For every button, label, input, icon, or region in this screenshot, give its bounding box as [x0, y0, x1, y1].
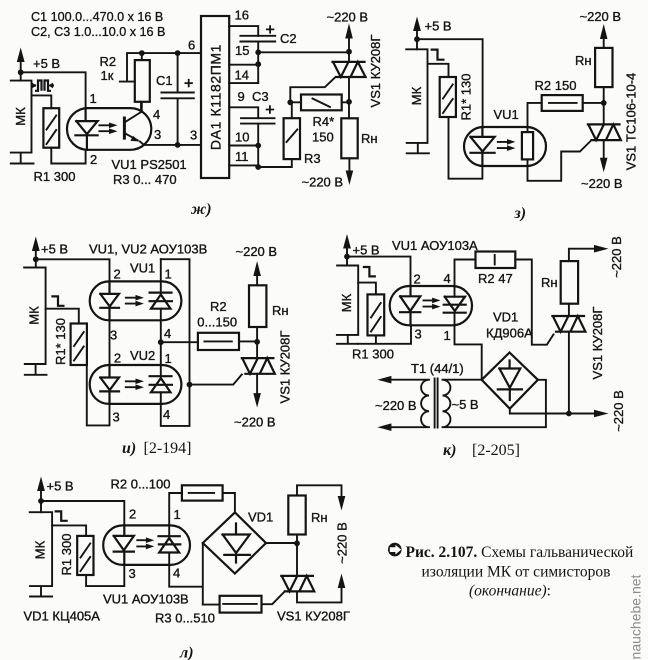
wire triac main line zh — [348, 52, 350, 119]
wire MK to R1 l — [52, 525, 86, 536]
label VS1 KU208G i — [278, 331, 293, 404]
svg-text:VS1 КУ208Г: VS1 КУ208Г — [368, 35, 383, 108]
+5V supply arrow i — [32, 237, 68, 268]
MCU block MK zh — [11, 81, 34, 164]
bridge diode symbol l — [223, 524, 250, 563]
svg-text:~220 В: ~220 В — [581, 176, 623, 191]
caption line 3 — [469, 583, 551, 600]
resistor R1 k — [368, 294, 385, 335]
pin 14 wire loop zh — [229, 65, 258, 83]
svg-text:2: 2 — [114, 351, 121, 366]
optocoupler VU2 body i — [90, 365, 182, 404]
LED of VU1 k — [400, 286, 420, 325]
~220V bottom arrow zh — [302, 158, 354, 189]
svg-text:з): з) — [514, 205, 527, 222]
~220V up arrow l — [338, 574, 346, 589]
pin 10 wire zh — [229, 130, 261, 149]
svg-text:С3: С3 — [252, 89, 269, 104]
svg-text:+5 В: +5 В — [353, 243, 380, 258]
photothyristor VU1 i — [150, 293, 172, 309]
wire Rn leads l — [297, 485, 342, 543]
label R3 zh — [304, 151, 321, 166]
wire R1 to LED cathode z — [449, 117, 483, 179]
pin 4 label k — [444, 271, 451, 286]
svg-text:2: 2 — [414, 272, 421, 287]
wire pin3 rail zh — [144, 144, 201, 146]
MCU block MK k — [337, 266, 358, 344]
label l) — [179, 645, 194, 660]
svg-text:1: 1 — [165, 267, 172, 282]
pin 4 label zh — [153, 107, 160, 122]
svg-text:9: 9 — [238, 89, 245, 104]
svg-text:3: 3 — [154, 127, 161, 142]
svg-text:Rн: Rн — [311, 510, 328, 525]
svg-text:~220 В: ~220 В — [611, 390, 626, 432]
node bridge triac junction l — [294, 540, 300, 546]
label C3 zh — [252, 89, 269, 104]
svg-text:+5 В: +5 В — [41, 242, 68, 257]
label R1 300 zh — [34, 169, 76, 184]
pin 6 label zh — [188, 38, 195, 53]
svg-text:16: 16 — [235, 8, 249, 23]
wire node to triac i — [256, 342, 258, 358]
optocoupler VU1 body i — [90, 281, 182, 320]
svg-text:и): и) — [122, 440, 136, 457]
svg-text:4: 4 — [163, 407, 170, 422]
pin 3 label VU2 i — [113, 410, 120, 425]
transformer T1 label — [411, 361, 464, 376]
~220V bottom arrow i — [234, 374, 276, 430]
label i) 2-194 — [122, 440, 191, 457]
resistor R4 zh — [301, 95, 342, 111]
pulse step symbol i — [51, 296, 64, 305]
transformer T1 primary k — [377, 376, 429, 431]
label R2 47 k — [478, 271, 513, 286]
wire R3 to triac gate l — [262, 591, 285, 604]
wire Rn top to 220V k — [569, 249, 594, 261]
label VU2 i — [130, 348, 155, 363]
svg-text:4: 4 — [173, 566, 180, 581]
svg-text:150: 150 — [312, 130, 334, 145]
svg-text:~220 В: ~220 В — [234, 415, 276, 430]
wire R3 left lead l — [203, 604, 220, 606]
svg-text:изоляции МК от симисторов: изоляции МК от симисторов — [422, 564, 611, 581]
triac VS1 k — [552, 316, 585, 332]
svg-text:к): к) — [443, 442, 456, 459]
svg-text:+5 В: +5 В — [425, 19, 452, 34]
~220V right arrow top k — [594, 236, 624, 278]
svg-text:МК: МК — [27, 306, 42, 325]
wire LED series link i — [109, 320, 111, 365]
label VU1 i — [130, 261, 155, 276]
svg-text:[2-194]: [2-194] — [144, 440, 192, 457]
load resistor Rn l — [288, 496, 327, 535]
wire bridge right to node l — [266, 542, 297, 544]
wire R3 top to node zh — [290, 102, 292, 118]
+5V supply arrow l — [37, 477, 74, 513]
+5V supply arrow z — [413, 17, 452, 50]
node +5V junction l — [38, 498, 44, 504]
svg-text:Рис. 2.107. Схемы гальваническ: Рис. 2.107. Схемы гальванической — [406, 544, 634, 561]
wire thyristor column VU1 i — [160, 259, 162, 342]
svg-text:VS1 КУ208Г: VS1 КУ208Г — [277, 609, 350, 624]
diode bridge VD1 l — [203, 512, 266, 573]
svg-text:л): л) — [179, 645, 194, 660]
triac VS1 zh — [333, 62, 366, 77]
pin 4 label VU1 i — [164, 326, 171, 341]
optocoupler VU1 body zh — [67, 108, 151, 150]
wire pin15 to triac zh — [258, 51, 349, 53]
diode bridge VD1 k — [482, 353, 538, 409]
svg-text:2: 2 — [114, 267, 121, 282]
label R1* 130 i — [53, 318, 68, 365]
svg-text:R3: R3 — [304, 151, 321, 166]
optocoupler VU1 body z — [464, 127, 546, 166]
wire triac gate zh — [290, 78, 334, 102]
resistor R2 z — [542, 95, 583, 111]
wire pin4 to bridge left l — [169, 543, 203, 605]
svg-text:~220 В: ~220 В — [236, 244, 278, 259]
node gate junction i — [187, 382, 193, 388]
svg-text:R4*: R4* — [313, 114, 335, 129]
photothyristor VU1 k — [444, 297, 466, 313]
svg-text:КД906А: КД906А — [486, 326, 533, 341]
LED of VU1 zh — [75, 108, 97, 150]
pin 2 label VU2 i — [114, 351, 121, 366]
svg-text:~220 В: ~220 В — [335, 522, 350, 564]
svg-text:R1* 130: R1* 130 — [53, 318, 68, 365]
capacitor C2 zh — [240, 25, 275, 83]
caption line 2 — [422, 564, 611, 581]
node triac top junction zh — [346, 49, 352, 55]
svg-text:+5 В: +5 В — [47, 479, 74, 494]
wire VU2 pin3 to R1 i — [87, 365, 110, 425]
light arrows VU1 l — [137, 537, 154, 549]
LED of VU1 l — [114, 525, 134, 565]
resistor R3 l — [220, 596, 262, 613]
svg-text:R3 0...510: R3 0...510 — [155, 611, 215, 626]
label k) 2-205 — [443, 442, 520, 459]
svg-text:3: 3 — [113, 410, 120, 425]
triac VS1 l — [281, 576, 314, 592]
resistor R2 k — [476, 252, 516, 269]
label VU1 PS2501 — [112, 157, 187, 172]
svg-text:~220 В: ~220 В — [327, 10, 369, 25]
pin 3 label l — [129, 566, 136, 581]
wire R2 right to node i — [239, 340, 257, 342]
phototransistor VU1 zh — [124, 102, 144, 145]
wire +5V rail to LED anode z — [417, 39, 483, 128]
LED of VU1 i — [100, 281, 119, 320]
svg-text:0...150: 0...150 — [197, 315, 237, 330]
triac VS1 z — [588, 124, 621, 140]
pin 11 wire zh — [229, 149, 261, 170]
wire pin1 to R2 l — [169, 493, 182, 525]
svg-text:~220 В: ~220 В — [302, 175, 344, 190]
light arrows VU1 zh — [99, 123, 117, 135]
svg-text:МК: МК — [339, 293, 354, 312]
node C1 top junction zh — [175, 50, 181, 56]
svg-text:+5 В: +5 В — [33, 56, 60, 71]
wire pin6 rail zh — [142, 52, 201, 54]
label C2 zh — [280, 31, 297, 46]
resistor R3 zh — [284, 118, 300, 159]
LED of VU2 i — [100, 365, 119, 404]
wire R2 right to gate k — [515, 260, 553, 345]
svg-text:T1 (44/1): T1 (44/1) — [411, 361, 464, 376]
svg-text:14: 14 — [235, 68, 249, 83]
pin 1 label zh — [90, 91, 97, 106]
svg-text:VS1 КУ208Г: VS1 КУ208Г — [590, 307, 605, 380]
caption line 1 — [406, 544, 634, 561]
svg-text:1: 1 — [90, 91, 97, 106]
wire R2 top lead zh — [141, 53, 143, 112]
label z) — [514, 205, 527, 222]
pin 2 label zh — [90, 152, 97, 167]
photoresistor element z — [522, 132, 533, 159]
svg-text:VU1 PS2501: VU1 PS2501 — [112, 157, 187, 172]
node +5V junction k — [344, 254, 350, 260]
label R3 0...510 l — [155, 611, 215, 626]
svg-text:10: 10 — [235, 130, 249, 145]
svg-text:~220 В: ~220 В — [609, 236, 624, 278]
wire pin4 to R2 i — [161, 341, 198, 343]
wire pin11 to R3 zh — [258, 159, 292, 167]
optocoupler VU1 body l — [103, 525, 190, 565]
svg-text:С2: С2 — [280, 31, 297, 46]
node +5V junction zh — [18, 69, 24, 75]
label R4* 150 zh — [312, 114, 334, 145]
label R3 0...470 — [113, 172, 177, 187]
svg-text:1: 1 — [444, 328, 451, 343]
load resistor Rn k — [541, 261, 578, 304]
load resistor Rn zh — [341, 118, 377, 158]
svg-text:ж): ж) — [190, 201, 212, 218]
node R2 triac junction i — [254, 339, 260, 345]
pin 3 label VU1 i — [110, 328, 117, 343]
node R2 Rn triac junction z — [601, 100, 607, 106]
MCU block MK i — [24, 268, 46, 375]
svg-text:Rн: Rн — [361, 131, 378, 146]
pin 4 label VU2 i — [163, 407, 170, 422]
svg-text:R1* 130: R1* 130 — [459, 74, 474, 121]
svg-text:МК: МК — [409, 86, 424, 105]
svg-text:4: 4 — [164, 326, 171, 341]
svg-text:VD1 КЦ405А: VD1 КЦ405А — [24, 609, 101, 624]
label VU1 AOU103A k — [392, 238, 478, 253]
svg-text:R2: R2 — [210, 299, 227, 314]
wire +5V rail to pin2 i — [36, 259, 110, 281]
svg-text:1: 1 — [165, 351, 172, 366]
MCU block MK z — [406, 49, 429, 153]
wire triac main line k — [568, 304, 570, 414]
node +5V junction z — [414, 36, 420, 42]
LED of VU1 z — [471, 127, 495, 166]
svg-text:С1: С1 — [156, 73, 173, 88]
svg-text:R2 150: R2 150 — [535, 78, 577, 93]
wire node to triac z — [603, 103, 605, 125]
node triac bottom junction k — [566, 411, 572, 417]
svg-text:R2: R2 — [100, 54, 117, 69]
svg-text:R2 0...100: R2 0...100 — [111, 477, 171, 492]
svg-text:~220 В: ~220 В — [580, 9, 622, 24]
bridge diode symbol k — [498, 361, 522, 401]
label C1 zh — [156, 73, 173, 88]
pin 2 label l — [129, 507, 136, 522]
node +5V junction i — [33, 256, 39, 262]
svg-text:4: 4 — [153, 107, 160, 122]
svg-text:R1 300: R1 300 — [59, 534, 74, 576]
svg-text:2: 2 — [90, 152, 97, 167]
wire MK to R1 i — [46, 309, 79, 324]
svg-text:R3 0... 470: R3 0... 470 — [113, 172, 177, 187]
capacitor C3 zh — [241, 105, 275, 167]
node pin15 junction zh — [235, 43, 261, 58]
wire MK to R1 z — [428, 64, 449, 77]
svg-text:Rн: Rн — [272, 303, 289, 318]
label R1 300 k — [352, 347, 394, 362]
light arrows VU1 z — [498, 139, 516, 151]
pin 2 label VU1 i — [114, 267, 121, 282]
wire bridge bottom to rail k — [510, 409, 594, 414]
photothyristor VU1 l — [159, 536, 181, 552]
label VD1 KC405A l — [24, 609, 101, 624]
pin 1 label l — [174, 507, 181, 522]
svg-text:2: 2 — [129, 507, 136, 522]
wire +5V rail to pin2 k — [347, 257, 411, 288]
label R2 0...100 l — [111, 477, 171, 492]
node pin3 C1 junction zh — [175, 142, 181, 148]
note C2 C3 values — [31, 25, 165, 39]
label VU1 VU2 AOU103V — [89, 242, 207, 257]
label VU1 AOU103V l — [103, 592, 189, 607]
pin 3 label k — [415, 327, 422, 342]
wire pin1 to bridge k — [455, 325, 482, 380]
wire R2 right to bridge top l — [223, 493, 235, 512]
svg-text:1: 1 — [174, 507, 181, 522]
pin 3 label at DA1 zh — [190, 128, 197, 143]
svg-text:С2, С3 1.0...10.0 х 16 В: С2, С3 1.0...10.0 х 16 В — [31, 25, 165, 39]
svg-text:~220 В: ~220 В — [375, 398, 417, 413]
wire R1 bottom and MK bar to pin3 k — [358, 325, 411, 344]
svg-text:VU1: VU1 — [494, 107, 519, 122]
label R2 1k zh — [100, 54, 117, 83]
resistor R1 z — [440, 77, 456, 117]
pin 1 label VU1 i — [165, 267, 172, 282]
wire +5V rail to pin2 l — [41, 501, 124, 525]
svg-text:R2 47: R2 47 — [478, 271, 513, 286]
label VU1 z — [494, 107, 519, 122]
label ~5V transformer k — [452, 397, 479, 412]
svg-text:DA1 К1182ПМ1: DA1 К1182ПМ1 — [208, 44, 224, 150]
node R4 left junction zh — [287, 99, 293, 105]
transformer T1 core k — [435, 379, 438, 428]
svg-text:VD1: VD1 — [493, 310, 518, 325]
svg-text:(окончание):: (окончание): — [469, 583, 551, 600]
pin 1 label k — [444, 328, 451, 343]
label ~220V transformer k — [375, 398, 417, 413]
photothyristor VU2 i — [150, 376, 172, 392]
~220V down arrow l — [335, 496, 350, 564]
capacitor C1 zh — [161, 53, 193, 145]
~220V top arrow zh — [327, 10, 369, 52]
wire +5V rail to pin1 zh — [21, 72, 86, 108]
light arrows VU1 k — [424, 298, 441, 310]
label VS1 KU208G l — [277, 609, 350, 624]
note C1 values — [31, 10, 163, 24]
label zh) — [190, 201, 212, 218]
svg-text:МК: МК — [33, 540, 48, 559]
label VD1 l — [248, 510, 273, 525]
pin 4 label l — [173, 566, 180, 581]
optocoupler VU1 body k — [390, 286, 472, 325]
svg-text:3: 3 — [190, 128, 197, 143]
resistor R2 zh — [135, 60, 150, 102]
svg-text:Rн: Rн — [541, 275, 558, 290]
wire triac bottom to 220V l — [297, 588, 342, 602]
load resistor Rn z — [575, 48, 613, 87]
label R2 150 z — [535, 78, 577, 93]
pin 16 wire zh — [229, 8, 258, 36]
wire triac gate z — [528, 141, 591, 181]
MCU block MK l — [30, 512, 52, 596]
~220V top arrow z — [580, 9, 622, 39]
wire R2 right to node z — [583, 102, 604, 104]
svg-text:VU1: VU1 — [130, 261, 155, 276]
svg-text:6: 6 — [188, 38, 195, 53]
wire R1 bottom to pin2 zh — [51, 148, 85, 164]
node pin14 junction zh — [255, 61, 261, 67]
svg-text:[2-205]: [2-205] — [472, 442, 520, 459]
~220V right arrow bottom k — [594, 390, 626, 432]
wire Rn leads z — [603, 40, 605, 103]
resistor R2 i — [198, 333, 239, 350]
svg-text:11: 11 — [235, 149, 249, 164]
label VS1 KU208G k — [590, 307, 605, 380]
svg-text:VU1 АОУ103В: VU1 АОУ103В — [103, 592, 189, 607]
label VS1 TC106-10-4 — [624, 73, 639, 171]
label R1 300 l — [59, 534, 74, 576]
svg-text:С1 100.0...470.0 х 16 В: С1 100.0...470.0 х 16 В — [31, 10, 163, 24]
svg-text:VS1 ТС106-10-4: VS1 ТС106-10-4 — [624, 73, 639, 171]
pin 2 label k — [414, 272, 421, 287]
wire node to triac l — [296, 543, 298, 576]
wire thyristor column l — [168, 525, 170, 565]
+5V supply arrow k — [343, 234, 380, 266]
node R4 right junction zh — [346, 99, 352, 105]
resistor R2 l — [182, 485, 223, 500]
wire thyristor column k — [454, 286, 456, 325]
svg-text:Rн: Rн — [575, 53, 592, 68]
pulse train symbol zh — [32, 81, 55, 91]
label R2 0...150 i — [197, 299, 237, 330]
svg-text:VS1 КУ208Г: VS1 КУ208Г — [278, 331, 293, 404]
wire MK to R1 k — [358, 283, 376, 295]
svg-text:МК: МК — [13, 107, 28, 126]
~220V top arrow i — [236, 244, 278, 276]
~220V bottom arrow z — [581, 140, 623, 191]
svg-text:VU1, VU2 АОУ103В: VU1, VU2 АОУ103В — [89, 242, 207, 257]
label VS1 KU208G zh — [368, 35, 383, 108]
pin 1 label VU2 i — [165, 351, 172, 366]
wire triac gate i — [190, 375, 242, 385]
resistor R1 zh — [43, 108, 59, 148]
caption icon — [388, 543, 402, 557]
pin 9 wire zh — [229, 89, 258, 118]
wire MK to R1 zh — [32, 95, 52, 108]
watermark nauchebe.net — [628, 574, 644, 659]
wire photoresistor top to R2 z — [528, 103, 542, 132]
